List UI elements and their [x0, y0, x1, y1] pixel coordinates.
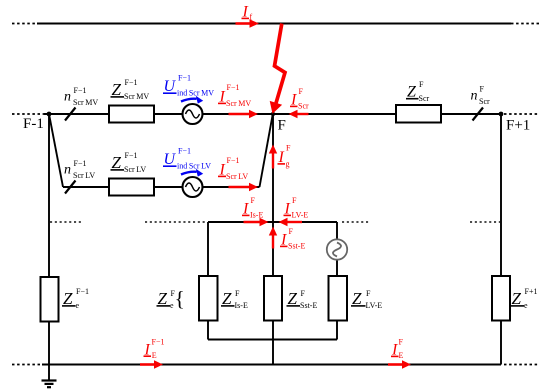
label I_ScrLV^F-1 red	[218, 156, 248, 181]
ac source Sst-E gray	[327, 239, 347, 259]
label Z_Sst-E^F	[287, 289, 318, 310]
resistor Z_Scr^F	[396, 105, 441, 123]
wire main bus F-1 to F+1	[44, 113, 501, 115]
svg-text:F−1: F−1	[125, 78, 138, 87]
resistor Z_e^F+1	[492, 276, 510, 321]
label I_f red	[242, 4, 253, 22]
wire LV branch horizontal	[63, 186, 260, 188]
svg-text:F: F	[301, 289, 306, 298]
svg-text:F−1: F−1	[227, 156, 240, 165]
label Z_ScrMV^F-1	[111, 78, 150, 101]
arrow I_g (up)	[269, 145, 277, 169]
ground	[42, 365, 57, 388]
wire bottom connector bar	[208, 339, 337, 341]
arrow I_f	[236, 19, 260, 28]
arrow I_LV-E (points left)	[279, 218, 303, 226]
svg-text:Z: Z	[158, 289, 168, 308]
svg-text:F+1: F+1	[506, 118, 530, 134]
label I_Sst-E^F red	[280, 227, 305, 250]
svg-text:F−1: F−1	[74, 159, 87, 168]
label Z_LV-E^F	[351, 289, 382, 310]
resistor Z_ScrLV^F-1	[109, 179, 154, 196]
arrow I_ScrLV	[229, 183, 259, 191]
arrow I_E^F-1	[140, 360, 163, 368]
node F	[271, 112, 275, 116]
wire y222 dashed right of LV-E corner	[342, 221, 369, 223]
node label F+1	[506, 118, 530, 134]
arrow I_Scr (points left to F)	[289, 110, 309, 118]
svg-text:F: F	[289, 227, 294, 236]
wire bottom earth bus solid	[42, 364, 501, 366]
label I_LV-E^F red	[284, 196, 309, 219]
svg-text:Scr MV: Scr MV	[226, 99, 251, 108]
wire top bus dashed right	[511, 23, 539, 25]
label n_ScrLV^F-1	[64, 159, 95, 180]
svg-text:F: F	[235, 289, 240, 298]
arrow I_Is-E	[244, 218, 269, 226]
label Z_e^F+1	[511, 287, 538, 310]
label Z_Scr^F	[406, 80, 430, 103]
arrow I_ScrMV	[229, 110, 259, 118]
resistor Z_e^F-1	[41, 277, 59, 322]
ac source U_indScrLV	[183, 177, 203, 197]
svg-text:F−1: F−1	[227, 83, 240, 92]
wire diagonal LV branch to node F	[260, 114, 273, 187]
wire main bus dashed left	[12, 113, 44, 115]
transformer ratio slash n_Scr^F	[473, 108, 484, 121]
label Z_ScrLV^F-1	[111, 151, 147, 174]
label Z_e^F with brace	[157, 287, 185, 311]
label I_Scr^F red	[290, 87, 309, 110]
label Z_Is-E^F	[221, 289, 248, 310]
svg-text:Is-E: Is-E	[250, 210, 263, 219]
fault lightning bolt	[270, 24, 285, 114]
svg-text:LV-E: LV-E	[366, 301, 383, 310]
svg-text:Z: Z	[512, 289, 522, 308]
svg-text:e: e	[524, 301, 528, 310]
svg-text:Scr LV: Scr LV	[124, 165, 146, 174]
label U_indScrLV^F-1 blue	[163, 147, 211, 171]
svg-text:F−1: F−1	[178, 147, 191, 156]
wire y222 solid bar Is-E corner to LV-E corner	[208, 221, 337, 223]
svg-text:ind Scr LV: ind Scr LV	[177, 161, 211, 170]
transformer ratio slash n_ScrLV	[65, 181, 76, 194]
wire bottom earth bus dashed left	[12, 364, 42, 366]
svg-text:Z: Z	[352, 289, 362, 308]
svg-text:n: n	[64, 90, 71, 105]
svg-text:Scr LV: Scr LV	[226, 172, 248, 181]
arrow curved blue U_indScrLV	[181, 169, 203, 177]
wire diagonal F-1 to LV branch	[49, 114, 63, 187]
svg-text:LV-E: LV-E	[292, 210, 309, 219]
label U_indScrMV^F-1 blue	[163, 74, 214, 98]
svg-text:F−1: F−1	[178, 74, 191, 83]
label I_E^F-1 red	[144, 337, 165, 360]
node label F-1	[23, 116, 44, 132]
label I_g^F red	[278, 144, 292, 169]
svg-text:g: g	[286, 159, 290, 168]
svg-text:F−1: F−1	[76, 287, 89, 296]
label I_Is-E^F red	[242, 196, 263, 219]
resistor Z_LV-E^F	[329, 276, 348, 321]
svg-text:F: F	[419, 80, 424, 89]
wire y222 dashed stub near left earth branch	[50, 221, 82, 223]
svg-text:F: F	[278, 118, 286, 134]
svg-text:F: F	[399, 338, 404, 347]
wire top bus dashed left	[12, 23, 37, 25]
svg-text:Z: Z	[112, 153, 122, 172]
arrow I_Sst-E (up)	[269, 227, 277, 249]
svg-text:Scr MV: Scr MV	[124, 92, 149, 101]
wire left earth branch vertical x=49	[48, 114, 50, 365]
svg-text:n: n	[471, 89, 478, 104]
wire main bus dashed right	[504, 113, 539, 115]
wire center vertical from node F	[272, 114, 274, 365]
node label F	[278, 118, 286, 134]
transformer ratio slash n_ScrMV	[65, 108, 76, 121]
svg-text:F: F	[286, 144, 291, 153]
node F+1	[499, 112, 504, 117]
svg-text:F: F	[251, 196, 256, 205]
svg-text:f: f	[250, 13, 253, 22]
svg-text:F−1: F−1	[152, 337, 165, 346]
svg-text:ind Scr MV: ind Scr MV	[177, 88, 214, 97]
label I_E^F red	[391, 338, 404, 361]
svg-text:{: {	[175, 287, 185, 311]
node F-1	[47, 112, 52, 117]
label n_Scr^F	[471, 85, 491, 106]
svg-text:Is-E: Is-E	[235, 301, 248, 310]
svg-text:E: E	[152, 351, 157, 360]
wire y222 dashed stub left of F+1 branch	[470, 221, 500, 223]
svg-text:Sst-E: Sst-E	[300, 301, 317, 310]
svg-text:Z: Z	[288, 289, 298, 308]
svg-text:Sst-E: Sst-E	[288, 241, 305, 250]
wire LV-E branch vertical	[336, 222, 338, 340]
svg-text:e: e	[76, 301, 80, 310]
wire right vertical from F+1	[500, 114, 502, 365]
svg-text:Scr MV: Scr MV	[73, 98, 98, 107]
arrow curved blue U_indScrMV	[181, 96, 203, 104]
label n_ScrMV^F-1	[64, 86, 98, 107]
svg-text:Scr: Scr	[298, 101, 309, 110]
svg-text:Scr: Scr	[479, 97, 490, 106]
ac source U_indScrMV	[183, 104, 203, 124]
svg-text:F: F	[292, 196, 297, 205]
svg-text:Scr: Scr	[419, 94, 430, 103]
wire Is-E branch vertical	[207, 222, 209, 340]
resistor Z_Sst-E^F	[264, 276, 282, 321]
svg-text:Z: Z	[63, 289, 73, 308]
svg-text:Z: Z	[222, 289, 232, 308]
svg-text:Z: Z	[112, 80, 122, 99]
resistor Z_ScrMV^F-1	[109, 106, 154, 123]
svg-text:e: e	[170, 301, 174, 310]
resistor Z_Is-E^F	[199, 276, 218, 321]
wire y222 dashed left of Is-E corner	[145, 221, 206, 223]
wire top bus solid	[37, 23, 511, 25]
svg-text:F: F	[366, 289, 371, 298]
svg-text:n: n	[64, 163, 71, 178]
svg-text:E: E	[399, 351, 404, 360]
svg-text:Scr LV: Scr LV	[73, 171, 95, 180]
svg-text:F: F	[299, 87, 304, 96]
label I_ScrMV^F-1 red	[218, 83, 251, 108]
svg-text:F−1: F−1	[74, 86, 87, 95]
svg-text:F+1: F+1	[525, 287, 538, 296]
svg-text:F-1: F-1	[23, 116, 44, 132]
arrow I_E^F	[388, 360, 411, 368]
svg-text:F−1: F−1	[125, 151, 138, 160]
label Z_e^F-1	[62, 287, 89, 310]
wire bottom earth bus dashed right	[504, 364, 539, 366]
svg-text:F: F	[480, 85, 485, 94]
